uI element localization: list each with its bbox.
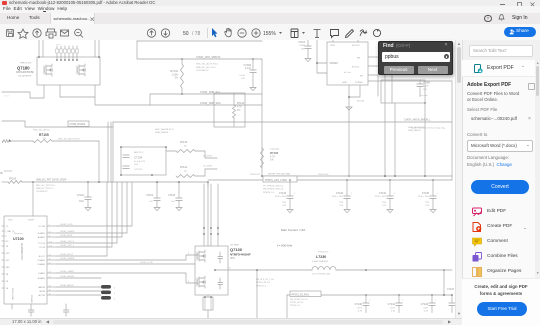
svg-text:PGND_PAD: PGND_PAD (11, 288, 14, 300)
wire C7184 bottom (252, 73, 254, 88)
export pdf body (467, 82, 511, 88)
mosfet Q7180 A (44, 64, 52, 76)
toolbar (0, 24, 540, 41)
junction (178, 181, 180, 183)
svg-text:PREVIOUS: PREVIOUS (20, 63, 32, 65)
wire (87, 182, 89, 197)
junction (384, 175, 386, 177)
wire fanout pin y256 (57, 182, 107, 256)
node gate tie (72, 59, 74, 61)
svg-text:C7141: C7141 (388, 303, 396, 306)
capacitor C7140 (365, 295, 367, 303)
svg-text:2%: 2% (43, 138, 46, 140)
junction (120, 146, 122, 148)
pin LGATE (47, 272, 57, 274)
wire net CHGR row1 (137, 41, 262, 59)
svg-text:0.1uF: 0.1uF (245, 67, 252, 70)
svg-text:Q7180: Q7180 (17, 66, 30, 71)
svg-text:L76_PP3V3S5_SW: L76_PP3V3S5_SW (312, 274, 330, 276)
svg-text:PREVIOUS: PREVIOUS (318, 251, 329, 253)
wire fanout pin y243 (57, 182, 117, 243)
capacitor C7130 (432, 180, 434, 196)
svg-text:1k CHGR: 1k CHGR (203, 156, 212, 158)
via (203, 233, 205, 235)
resistor R7120 (261, 148, 264, 168)
svg-text:PGN: PGN (330, 45, 335, 47)
svg-text:22uF ± 20%: 22uF ± 20% (332, 196, 343, 198)
node (38, 56, 40, 58)
svg-text:R7144: R7144 (180, 166, 188, 169)
resistor R7104 stub (2, 140, 10, 143)
wire U7100 bottom stubs (12, 304, 66, 310)
svg-text:1 2 3: 1 2 3 (4, 96, 9, 98)
svg-text:22uF ± 20%: 22uF ± 20% (375, 196, 386, 198)
svg-text:16V: 16V (423, 89, 427, 91)
capacitor C7134b (123, 166, 129, 169)
capacitor C7130 (430, 196, 436, 199)
ground C7130 (430, 210, 436, 213)
svg-text:C7103: C7103 (168, 195, 175, 197)
capacitor C7140 (363, 303, 369, 306)
svg-text:CLK05M-3 P: CLK05M-3 P (36, 191, 49, 193)
wire R7142 leads (233, 93, 235, 127)
svg-text:22uF ± 20%: 22uF ± 20% (418, 196, 429, 198)
via (203, 227, 205, 229)
doc vertical scrollbar (455, 40, 462, 318)
svg-text:C7133: C7133 (279, 192, 287, 195)
svg-text:DKPA4607DFBF: DKPA4607DFBF (16, 71, 34, 74)
svg-text:R7105: R7105 (39, 133, 49, 137)
svg-text:L7230: L7230 (316, 255, 326, 259)
svg-text:50: 50 (183, 31, 189, 37)
net label box CHGR_BGATE (68, 121, 89, 126)
capacitor C7143 (451, 295, 453, 303)
current sense box (381, 80, 425, 103)
wire R7141 leads (181, 59, 183, 94)
svg-text:PPBUS_G3H_CHGR: PPBUS_G3H_CHGR (265, 180, 287, 182)
svg-text:SHORT PIN GND PAD: SHORT PIN GND PAD (268, 173, 291, 176)
svg-text:Q7130: Q7130 (230, 247, 243, 252)
svg-text:22uF: 22uF (357, 307, 362, 309)
svg-text:02: 02 (184, 145, 187, 147)
svg-text:CHGR_OVP_L: CHGR_OVP_L (60, 245, 75, 247)
junction (151, 174, 153, 176)
wire top cut edge (137, 40, 262, 42)
capacitor C7101 (85, 197, 91, 200)
resistor sense below Q7130 (203, 297, 213, 310)
svg-text:PP3V3 1-4: PP3V3 1-4 (256, 285, 267, 287)
wire DGATE to Q7130 (57, 255, 198, 260)
via (210, 233, 212, 235)
svg-text:▫▫▫▫▫▫: ▫▫▫▫▫▫ (56, 44, 61, 46)
svg-text:1%: 1% (237, 110, 240, 112)
bottom status / hscrollbar (0, 318, 462, 325)
junction (431, 294, 433, 296)
svg-text:LGATE: LGATE (38, 272, 46, 275)
svg-text:R7143: R7143 (180, 141, 188, 144)
wire right link (443, 270, 445, 295)
svg-text:ACTW: ACTW (39, 294, 46, 297)
junction (389, 179, 391, 181)
right cluster: help, bell, sign in (484, 15, 492, 23)
svg-text:P: P (6, 236, 8, 238)
capacitor snubber2 (218, 278, 223, 289)
pin GGATE (47, 232, 57, 234)
svg-text:FB: FB (360, 76, 363, 78)
op-amp U7170 charger IC box (327, 42, 368, 85)
wire (349, 85, 360, 176)
svg-text:C05: C05 (382, 205, 387, 207)
svg-text:AGATE: AGATE (38, 236, 46, 239)
svg-text:2x 2uF 10V: 2x 2uF 10V (134, 161, 146, 163)
svg-text:4: 4 (114, 288, 116, 290)
capacitor C7132 (346, 180, 348, 196)
junction (120, 174, 122, 176)
svg-text:25V: 25V (339, 202, 343, 204)
capacitor C7133 (289, 180, 291, 196)
svg-text:POWER: POWER (30, 295, 32, 304)
svg-text:VDDF: VDDF (28, 220, 35, 222)
svg-text:PREVIOUS: PREVIOUS (318, 174, 329, 176)
svg-text:R7141: R7141 (170, 69, 178, 73)
ground U7170 (346, 107, 352, 110)
junction (384, 175, 386, 177)
svg-text:6.3V: 6.3V (358, 311, 363, 313)
svg-text:1: 1 (369, 300, 370, 302)
wire left stub R7105 (10, 140, 33, 142)
svg-text:ZT: ZT (6, 226, 9, 228)
svg-text:Renesas: Renesas (14, 233, 24, 235)
pin BGATE (47, 277, 57, 279)
pin PHASE (47, 263, 57, 265)
wire C7103 top (178, 182, 180, 198)
junction (181, 58, 183, 60)
wire fanout pin y247 (57, 182, 112, 247)
svg-text:Rsns = 5.1mΩ ± 1% for 2 amp ch: Rsns = 5.1mΩ ± 1% for 2 amp chg (411, 127, 445, 130)
capacitor C7184 (250, 70, 256, 73)
export pdf header (462, 60, 540, 77)
capacitor C7142 (429, 303, 435, 306)
svg-text:PP3V3 1-4: PP3V3 1-4 (290, 305, 301, 307)
wires to C7134 box (108, 122, 111, 182)
svg-text:C7143: C7143 (447, 289, 454, 291)
svg-text:1k CHGR: 1k CHGR (203, 166, 212, 168)
svg-text:10uF: 10uF (79, 201, 85, 203)
capacitor C7131 (387, 196, 393, 199)
wire C7102 top (156, 182, 158, 198)
wire U7170 top pins (333, 40, 358, 42)
svg-text:7B: 7B (6, 246, 9, 248)
wire (156, 201, 158, 208)
svg-text:16: 16 (49, 290, 51, 292)
pin AMON (47, 286, 57, 288)
svg-text:1.0uH 7.5A 20%: 1.0uH 7.5A 20% (312, 260, 328, 263)
svg-text:CHGR_DGATE: CHGR_DGATE (60, 257, 75, 260)
capacitor C7132 (344, 196, 350, 199)
wire drain right pair (95, 40, 99, 57)
capacitor C7103 (176, 198, 182, 201)
capacitor C7142 (431, 295, 433, 303)
ground C7133 (287, 210, 293, 213)
junction (98, 181, 100, 183)
svg-text:155%: 155% (263, 31, 276, 37)
svg-text:PREVIOUS: PREVIOUS (250, 174, 261, 176)
wire bus A (22, 181, 208, 183)
svg-text:SMB_BMON: SMB_BMON (408, 130, 421, 132)
wire L7230 out (336, 269, 452, 271)
svg-text:3K2: 3K2 (6, 260, 11, 262)
svg-text:6.3V: 6.3V (391, 311, 396, 313)
wires AMON IMON ACTW (57, 287, 101, 295)
svg-text:17.4: 17.4 (49, 246, 53, 248)
svg-text:22uF: 22uF (390, 307, 395, 309)
node gate tie (76, 59, 78, 61)
resistor R7103 (8, 181, 22, 184)
resistor array above Q7180 (56, 46, 58, 60)
wire R7144 net (195, 169, 217, 176)
svg-text:C7130: C7130 (422, 192, 430, 195)
ground C7184 (250, 88, 256, 91)
svg-text:f = 600 kHz: f = 600 kHz (277, 244, 293, 248)
junction (214, 269, 216, 271)
svg-text:C05: C05 (425, 205, 430, 207)
svg-text:CHGR_CELLS: CHGR_CELLS (60, 241, 74, 243)
svg-text:C7101: C7101 (77, 194, 85, 197)
svg-text:3K9: 3K9 (6, 253, 11, 255)
svg-text:R2: R2 (6, 241, 10, 243)
capacitor C7141 (398, 295, 400, 303)
svg-text:C04: C04 (134, 164, 139, 166)
title bar (0, 0, 540, 6)
svg-text:CHGR_DCIN: CHGR_DCIN (60, 224, 73, 226)
svg-text:CHGR_GGATE: CHGR_GGATE (60, 230, 75, 233)
find dialog (378, 41, 453, 75)
test point TP AMON (101, 285, 111, 289)
svg-text:PM_SLP_S5_L 2-8: PM_SLP_S5_L 2-8 (256, 279, 275, 281)
mosfet Q7130 high (197, 250, 205, 262)
test point TP ACP (101, 296, 111, 300)
svg-text:PP3V3_S5_RAIL: PP3V3_S5_RAIL (292, 293, 310, 296)
junction (348, 96, 350, 98)
node gate tie (56, 59, 58, 61)
bottom trial (462, 278, 540, 326)
sidebar (462, 40, 540, 325)
wire main vertical bus (261, 59, 263, 176)
svg-text:GND: GND (342, 82, 347, 84)
svg-text:NTMFD4402NP: NTMFD4402NP (230, 252, 251, 256)
svg-text:A+ Gnd: A+ Gnd (344, 71, 351, 74)
wire fanout pin y226 (57, 182, 132, 226)
junction (398, 294, 400, 296)
junction (394, 175, 396, 177)
svg-text:22uF ± 20%: 22uF ± 20% (275, 196, 286, 198)
junction (252, 58, 254, 60)
net label box PP3V3_S5 (290, 291, 321, 297)
node (98, 56, 100, 58)
svg-text:14: 14 (49, 255, 51, 257)
svg-text:SMC_BC_ACOK: SMC_BC_ACOK (33, 129, 50, 132)
svg-text:USBDET: USBDET (329, 63, 339, 65)
svg-text:14: 14 (49, 286, 51, 288)
svg-text:US-QFN8-EP: US-QFN8-EP (18, 75, 32, 77)
wire net CHGR row2 (150, 94, 262, 105)
pin AGATE (47, 236, 57, 238)
junction (432, 179, 434, 181)
pin BOOT (47, 255, 57, 257)
resistor R7143 (176, 150, 195, 153)
svg-text:BGATE: BGATE (38, 277, 46, 280)
svg-text:C7131: C7131 (379, 192, 387, 195)
svg-text:1: 1 (437, 193, 438, 195)
node gate tie (68, 59, 70, 61)
op-amp U7100 battery charger IC (4, 216, 47, 304)
wire U7170 left pins (317, 40, 327, 73)
svg-text:14: 14 (49, 232, 51, 234)
svg-text:ISL6259AHRTZ: ISL6259AHRTZ (20, 243, 23, 260)
svg-text:0.1uF: 0.1uF (423, 86, 429, 88)
wire fb3 (424, 103, 426, 176)
via (210, 227, 212, 229)
junction (261, 175, 263, 177)
wire R7143 net (166, 151, 217, 158)
svg-text:PP3V3_S5 2-4: PP3V3_S5 2-4 (256, 282, 271, 284)
svg-text:B: B (1, 171, 3, 175)
svg-text:PP_PPBUS_G3H 1-4: PP_PPBUS_G3H 1-4 (263, 186, 284, 188)
sidebar scrollbar (535, 60, 540, 278)
pin IMON (47, 290, 57, 292)
svg-text:2B: 2B (6, 281, 9, 283)
capacitor C7134a (123, 155, 129, 158)
junction (365, 269, 367, 271)
svg-text:SMB_BC_SCL R1.0: SMB_BC_SCL R1.0 (196, 67, 216, 69)
junction (424, 102, 426, 104)
wire (178, 201, 180, 208)
svg-text:1: 1 (294, 193, 295, 195)
svg-text:CHGR_BGATE: CHGR_BGATE (60, 275, 75, 278)
svg-text:CHGR_ACIN: CHGR_ACIN (60, 234, 73, 237)
capacitor C7133 (287, 196, 293, 199)
junction (32, 181, 34, 183)
svg-text:0.1uF: 0.1uF (239, 75, 245, 77)
wire (307, 40, 309, 46)
tab bar (0, 13, 540, 25)
capacitor block C7134 (121, 147, 166, 175)
junction (443, 269, 445, 271)
svg-text:SMC_BC_ACOK R1.0: SMC_BC_ACOK R1.0 (58, 138, 81, 141)
svg-text:GGATE: GGATE (38, 232, 46, 235)
wires U7170 right pins (368, 57, 392, 176)
svg-text:bal point: bal point (420, 94, 428, 97)
wire LX down (256, 270, 258, 318)
junction (156, 181, 158, 183)
inductor L7230 (312, 267, 336, 270)
svg-text:PM_PPBUS_G3H 4-8: PM_PPBUS_G3H 4-8 (263, 189, 284, 191)
svg-text:/ 78: / 78 (192, 31, 201, 37)
svg-text:25V: 25V (282, 202, 286, 204)
svg-text:25V: 25V (382, 202, 386, 204)
svg-text:CHGR_VDD_SMBUS: CHGR_VDD_SMBUS (196, 56, 221, 59)
svg-text:02: 02 (184, 170, 187, 172)
svg-text:CHGR_AMON_BMON_L: CHGR_AMON_BMON_L (404, 119, 431, 122)
wire bus down to Q7130 (207, 182, 209, 246)
svg-text:22uF: 22uF (423, 307, 428, 309)
wire LX (215, 269, 312, 271)
wire drain left pair (39, 40, 43, 57)
svg-text:SMB_BGATE: SMB_BGATE (155, 131, 169, 134)
junction (207, 181, 209, 183)
pin DGATE (47, 259, 57, 261)
svg-text:6.3V: 6.3V (424, 311, 429, 313)
svg-text:Max Current = 8A: Max Current = 8A (281, 228, 306, 232)
wire to U7100 top (32, 182, 34, 216)
wire sense leads (207, 295, 209, 318)
junction (204, 296, 206, 298)
wire BGATE (57, 277, 101, 279)
svg-text:1: 1 (351, 193, 352, 195)
svg-text:CHGR_LX 4B: CHGR_LX 4B (140, 262, 153, 264)
svg-text:2.2uF: 2.2uF (299, 45, 305, 47)
wire left stub R7103 (2, 181, 8, 183)
capacitor C7186 (417, 84, 423, 87)
svg-text:LX: LX (228, 268, 231, 270)
via (217, 233, 219, 235)
svg-text:R7120: R7120 (270, 151, 279, 155)
svg-text:SMC_BC_PRT R1.0: SMC_BC_PRT R1.0 (36, 185, 56, 187)
pin DCYM (47, 225, 57, 227)
svg-text:C05: C05 (339, 205, 344, 207)
svg-text:14: 14 (49, 294, 51, 296)
junction (289, 179, 291, 181)
svg-text:R7103: R7103 (9, 178, 17, 181)
svg-text:25V: 25V (301, 48, 305, 50)
svg-text:25V: 25V (425, 202, 429, 204)
svg-text:13: 13 (49, 272, 51, 274)
svg-text:CHGR_BOOT: CHGR_BOOT (60, 254, 74, 256)
svg-text:16V: 16V (241, 78, 245, 80)
svg-text:R5 0.01: R5 0.01 (357, 101, 365, 103)
wire fb2 (394, 103, 396, 176)
ground C7132 (344, 210, 350, 213)
svg-text:21: 21 (49, 277, 51, 279)
svg-text:DCYM: DCYM (39, 226, 46, 228)
mosfet Q7180 B (77, 64, 85, 76)
svg-text:1: 1 (435, 300, 436, 302)
svg-text:DGATE: DGATE (38, 259, 46, 262)
svg-text:EN: EN (357, 58, 360, 60)
wire (307, 49, 309, 59)
svg-text:1uF: 1uF (149, 201, 153, 203)
resistor R7142 (233, 105, 236, 118)
svg-text:BOOT: BOOT (39, 256, 46, 258)
svg-text:4: 4 (114, 299, 116, 301)
svg-text:OC18: OC18 (39, 247, 45, 249)
wire CHGR_BGATE left (2, 121, 113, 127)
svg-text:1%: 1% (174, 77, 178, 80)
svg-text:3B: 3B (6, 274, 9, 276)
junction (181, 93, 183, 95)
junction (210, 296, 212, 298)
wire SHORT PIN rail (262, 175, 452, 177)
svg-text:CHGR_SMB_SCL: CHGR_SMB_SCL (200, 91, 221, 94)
ground C7103 (176, 208, 182, 211)
svg-text:1: 1 (402, 300, 403, 302)
svg-text:VDD: VDD (8, 220, 13, 222)
svg-text:C05: C05 (282, 205, 287, 207)
wire CHGR_AMON long (113, 121, 452, 123)
svg-text:15: 15 (49, 259, 51, 261)
svg-text:1: 1 (394, 193, 395, 195)
svg-text:PM_PP3V3_S5 2-8: PM_PP3V3_S5 2-8 (290, 299, 308, 301)
